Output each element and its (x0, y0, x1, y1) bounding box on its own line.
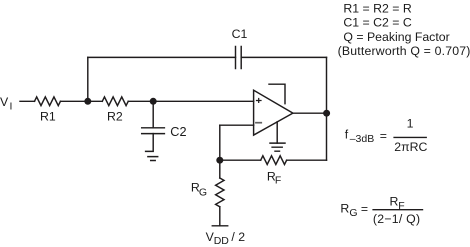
wire R2 to node B (128, 100, 153, 102)
svg-text:Q = Peaking Factor: Q = Peaking Factor (343, 30, 449, 44)
resistor R2 (102, 97, 128, 106)
op-amp + symbol (256, 98, 262, 103)
svg-text:C1: C1 (232, 27, 248, 41)
wire RG to VDD/2 terminal (219, 207, 221, 226)
svg-text:R: R (390, 195, 399, 209)
terminal bar VDD/2 (212, 225, 227, 227)
svg-text:R1 = R2 = R: R1 = R2 = R (343, 2, 411, 16)
resistor RG (216, 178, 224, 207)
svg-text:R: R (340, 201, 349, 215)
node A junction dot (84, 98, 91, 105)
svg-text:/ 2: / 2 (231, 230, 245, 244)
svg-text:R2: R2 (107, 109, 123, 123)
svg-text:G: G (349, 207, 357, 219)
node C junction dot (216, 157, 223, 164)
formula f-3dB fraction bar (393, 136, 427, 138)
formula RG fraction bar (372, 209, 423, 211)
node B junction dot (150, 98, 157, 105)
svg-text:1: 1 (407, 117, 414, 131)
wire op-amp output (293, 112, 327, 114)
svg-text:–3dB: –3dB (350, 133, 375, 145)
op-amp U1 (254, 90, 293, 135)
ground under op-amp (270, 143, 285, 151)
wire node C to RF (220, 159, 261, 161)
svg-text:(Butterworth Q = 0.707): (Butterworth Q = 0.707) (338, 44, 470, 58)
resistor R1 (35, 97, 61, 106)
svg-text:=: = (361, 202, 368, 216)
svg-text:G: G (199, 186, 207, 198)
output node junction dot (323, 110, 330, 117)
wire node B to op-amp + input (153, 100, 253, 102)
wire R1 to node A (60, 100, 87, 102)
svg-text:F: F (275, 175, 281, 187)
wire right vertical (326, 57, 328, 160)
op-amp power pin (269, 84, 285, 103)
svg-text:R1: R1 (40, 109, 56, 123)
svg-text:C2: C2 (170, 125, 186, 139)
wire feedback right segment (241, 56, 326, 58)
op-amp - symbol (255, 122, 262, 124)
wire input to R1 (20, 100, 35, 102)
svg-text:=: = (380, 129, 387, 143)
svg-text:I: I (10, 100, 13, 112)
svg-text:V: V (0, 95, 9, 109)
wire node C down to RG (219, 160, 221, 178)
ground under C2 (148, 157, 158, 161)
wire - input down to node C (219, 125, 221, 160)
svg-text:(2−1/ Q): (2−1/ Q) (373, 212, 420, 226)
wire - input (220, 124, 254, 126)
resistor RF (261, 156, 287, 165)
wire node A up to C1 feedback (87, 57, 89, 101)
wire node B down to C2 (152, 101, 154, 128)
wire node A to R2 (88, 100, 103, 102)
svg-text:DD: DD (214, 235, 230, 247)
wire RF to right vertical (287, 159, 327, 161)
wire C2 to ground (146, 134, 154, 152)
op-amp ground pin (276, 122, 278, 143)
svg-text:2πRC: 2πRC (394, 140, 427, 154)
capacitor C1 (236, 47, 242, 69)
svg-text:C1 = C2 = C: C1 = C2 = C (343, 16, 411, 30)
svg-text:f: f (345, 128, 349, 142)
capacitor C2 (142, 128, 165, 134)
wire feedback left segment (88, 56, 236, 58)
